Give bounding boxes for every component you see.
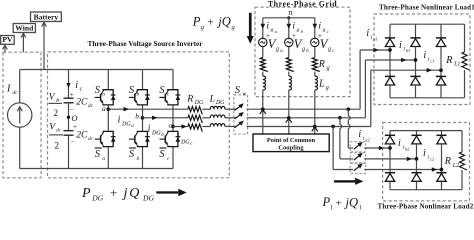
wire: load2 leg a mid — [389, 144, 391, 173]
current arrow i_gc — [313, 24, 318, 29]
capacitor 2C_dc upper — [64, 91, 94, 114]
svg-text:g: g — [326, 85, 329, 91]
label I_dc — [6, 84, 18, 97]
current arrow i_lc2 — [432, 167, 437, 171]
current arrow i_DGc — [182, 124, 188, 128]
svg-text:g: g — [302, 47, 305, 53]
svg-text:S: S — [129, 149, 135, 160]
wire: filter to S_w a — [225, 108, 236, 110]
svg-text:S: S — [129, 85, 135, 96]
svg-text:2: 2 — [54, 108, 59, 118]
wire: R-L gap c — [202, 126, 210, 128]
wire: leg c upper — [172, 70, 174, 90]
svg-text:L: L — [209, 94, 215, 105]
wire: leg a mid — [107, 105, 109, 131]
inductor L_DG phase b — [210, 115, 225, 118]
svg-text:dc: dc — [56, 129, 62, 134]
wire: cap branch lower — [68, 135, 70, 168]
wire: load2 leg c mid — [441, 144, 443, 173]
inductor L_g branch c — [315, 76, 318, 90]
wire: filter to S_w c — [225, 126, 236, 128]
resistor R_g branch a — [260, 58, 268, 72]
wire: filter to S_w b — [225, 117, 236, 119]
svg-text:i: i — [118, 115, 121, 126]
label i_DGc — [177, 133, 194, 148]
svg-text:c1: c1 — [430, 58, 434, 63]
wire: load1 right lower — [464, 70, 466, 98]
label i_DGb — [148, 124, 165, 139]
load1 bottom rail — [390, 97, 465, 99]
wire: R-L gap b — [202, 117, 210, 119]
svg-text:g: g — [323, 27, 326, 33]
current arrow i_lb2 — [407, 157, 412, 161]
label V_gb — [294, 37, 309, 54]
label S_a bar — [95, 148, 106, 162]
svg-text:DG: DG — [91, 193, 103, 202]
label i_lb2 — [398, 138, 410, 151]
svg-text:O: O — [71, 113, 77, 123]
svg-text:g: g — [327, 66, 330, 72]
current arrow i_lb1 — [401, 58, 406, 63]
wire: cap branch upper — [68, 70, 70, 99]
label V_ga plus — [266, 32, 270, 40]
wire: grid branch b upper — [288, 18, 290, 40]
wire: load1 leg c mid — [440, 47, 442, 77]
PV box — [1, 35, 15, 44]
svg-text:R: R — [318, 59, 325, 70]
diode load2 bottom a — [385, 173, 395, 182]
diode load1 top a — [385, 38, 395, 47]
wire: grid top bus — [263, 17, 315, 19]
inductor L_DG phase a — [210, 106, 225, 109]
svg-text:P: P — [322, 195, 331, 209]
wire: load2 leg b mid — [416, 144, 418, 173]
svg-text:g: g — [328, 47, 331, 53]
wire: top bus — [44, 69, 173, 71]
label V_dc/2 upper — [49, 92, 63, 118]
label P_DG + jQ_DG — [81, 185, 154, 202]
svg-text:i: i — [318, 21, 321, 32]
wire: load1 leg b mid — [415, 47, 417, 77]
Battery arrow — [42, 22, 46, 69]
label V_gc — [320, 37, 335, 54]
label S_c — [159, 85, 170, 98]
svg-text:Q: Q — [129, 186, 139, 201]
svg-text:2C: 2C — [76, 98, 88, 108]
svg-text:i: i — [398, 138, 401, 149]
svg-text:Three-Phase Nonlinear Load1: Three-Phase Nonlinear Load1 — [379, 4, 474, 12]
label S_b — [129, 85, 140, 98]
label i_ga — [266, 21, 277, 34]
wire: bus a — [247, 108, 361, 110]
svg-text:i: i — [148, 124, 151, 135]
svg-text:i: i — [358, 129, 361, 140]
diode load2 top a — [385, 135, 395, 144]
label R_L2 — [444, 156, 459, 169]
svg-text:−: − — [71, 138, 75, 146]
switch S_w phase c — [234, 121, 243, 128]
tap line a to load2 (dot) — [346, 107, 350, 111]
junction grid b / bus b — [286, 116, 292, 122]
current arrow i_ga — [261, 24, 266, 29]
svg-text:i: i — [75, 80, 78, 91]
PV arrow — [3, 45, 7, 52]
svg-text:a: a — [102, 104, 106, 113]
wire: grid branch c mid2 — [314, 72, 316, 77]
inductor L_g branch b — [289, 76, 292, 90]
svg-text:+: + — [207, 17, 214, 29]
svg-text:b: b — [137, 156, 140, 162]
junction load2 b — [415, 157, 419, 161]
svg-text:Battery: Battery — [34, 12, 59, 21]
wire: phase c to filter — [173, 126, 188, 128]
svg-text:l: l — [360, 204, 362, 211]
IGBT S_a — [95, 90, 116, 105]
svg-text:P: P — [81, 186, 91, 201]
wire: load1 leg b lower — [415, 85, 417, 98]
label V_gb plus — [292, 32, 296, 40]
diode load1 bottom b — [410, 76, 420, 85]
label S_c bar — [159, 148, 170, 162]
wire: leg b mid — [142, 105, 144, 131]
svg-text:DG: DG — [151, 130, 161, 136]
svg-text:S: S — [95, 85, 101, 96]
svg-text:i: i — [366, 28, 369, 39]
inverter enclosure (dashed box) — [48, 52, 230, 178]
svg-text:a1: a1 — [373, 36, 378, 41]
label S_a — [95, 85, 106, 98]
wire: load1 leg c upper — [440, 24, 442, 38]
svg-text:dc: dc — [13, 90, 19, 96]
label S_b bar — [129, 148, 140, 162]
svg-text:DG: DG — [121, 121, 131, 127]
svg-text:DG: DG — [142, 193, 154, 202]
svg-text:w: w — [242, 92, 246, 98]
svg-text:b: b — [137, 92, 140, 98]
P_l power arrow (right) — [334, 178, 363, 185]
inductor L_DG phase c — [210, 124, 225, 127]
svg-text:PV: PV — [2, 35, 13, 44]
wire: load1 leg a mid — [389, 47, 391, 77]
svg-text:jQ: jQ — [344, 195, 359, 209]
label V_ga — [268, 37, 283, 54]
junction: cap-bottom bus — [0, 0, 1, 1]
label S_w — [235, 85, 247, 98]
svg-text:Three-Phase Grid: Three-Phase Grid — [268, 0, 337, 9]
node b — [135, 112, 144, 121]
svg-text:dc: dc — [88, 136, 94, 142]
resistor R_DG phase a — [188, 107, 202, 115]
svg-text:+: + — [110, 185, 117, 200]
wire: load2 right upper — [461, 131, 463, 152]
label R_DG — [186, 94, 204, 107]
svg-text:i: i — [423, 50, 426, 61]
IGBT S_c — [159, 90, 180, 105]
Point of Common Coupling box — [253, 134, 329, 152]
switch S_w phase b — [234, 112, 243, 119]
svg-text:+: + — [336, 197, 342, 209]
wire: grid branch a mid1 — [262, 47, 264, 58]
current arrow i_DGb — [152, 116, 158, 120]
wire: leg b upper — [142, 70, 144, 90]
svg-text:P: P — [192, 15, 201, 29]
svg-text:a: a — [102, 156, 105, 162]
load2 title — [377, 203, 473, 211]
current arrow i_DGa — [124, 107, 130, 111]
label i_c — [75, 80, 82, 93]
wire: load2 leg c lower — [441, 181, 443, 189]
label i_DGa — [118, 115, 135, 130]
wire: load2 leg c upper — [441, 131, 443, 136]
svg-text:g: g — [276, 47, 279, 53]
svg-text:c: c — [327, 29, 329, 34]
S_w switch bracket (dashed) — [234, 95, 248, 134]
svg-text:DG: DG — [194, 100, 204, 106]
svg-text:b1: b1 — [406, 48, 411, 53]
diode load1 top b — [410, 38, 420, 47]
switch load2 row b — [354, 153, 363, 160]
svg-text:c2: c2 — [430, 156, 435, 161]
grid title — [268, 0, 337, 9]
wire: grid branch c upper — [314, 18, 316, 40]
svg-text:i: i — [177, 133, 180, 144]
diode load2 top b — [411, 135, 421, 144]
Wind box — [13, 23, 35, 32]
switch load2 row c — [354, 163, 363, 170]
wire: source top to top bus — [20, 70, 44, 103]
svg-text:R: R — [445, 55, 452, 66]
IGBT S_c-bar — [159, 131, 180, 146]
label L_g — [318, 79, 329, 92]
AC source V_gb — [285, 38, 293, 46]
resistor R_g branch c — [312, 58, 320, 72]
resistor R_DG phase b — [188, 115, 202, 123]
wire: leg c mid — [172, 105, 174, 131]
svg-text:dc: dc — [88, 103, 94, 109]
current arrow i_gb — [287, 24, 292, 29]
load2 switch bracket row b (dashed) — [350, 153, 365, 163]
svg-text:l: l — [331, 204, 333, 211]
svg-text:dc: dc — [56, 99, 62, 104]
tap line b to load2 (dot) — [338, 116, 342, 120]
wire: grid branch a upper — [262, 18, 264, 40]
wire: load1 right upper — [464, 24, 466, 52]
svg-text:2C: 2C — [76, 130, 88, 140]
junction grid a / bus a — [260, 107, 266, 113]
nonlinear load1 enclosure (dashed box) — [374, 14, 470, 105]
svg-text:R: R — [444, 156, 451, 167]
capacitor 2C_dc lower — [64, 123, 94, 146]
wire: load2 leg b upper — [416, 131, 418, 136]
wire: phase b to filter — [143, 117, 188, 119]
svg-text:a: a — [102, 92, 105, 98]
wire: grid branch b mid1 — [288, 47, 290, 58]
wire: leg c lower — [172, 147, 174, 169]
svg-text:Three-Phase Nonlinear Load2: Three-Phase Nonlinear Load2 — [377, 203, 473, 211]
grid power arrow (down) — [247, 13, 254, 44]
svg-text:b2: b2 — [405, 146, 410, 151]
diode load1 bottom a — [385, 76, 395, 85]
svg-text:DG: DG — [180, 139, 190, 145]
resistor R_DG phase c — [188, 124, 202, 132]
junction load2 c — [440, 168, 444, 172]
label V_gc plus — [318, 32, 322, 40]
junction: cap-top bus — [0, 0, 1, 1]
node c — [169, 120, 175, 129]
wire: load1 riser c — [371, 70, 441, 126]
svg-text:a2: a2 — [365, 137, 370, 142]
switch load2 row a — [354, 142, 363, 149]
svg-text:S: S — [159, 149, 165, 160]
IGBT S_b — [129, 90, 150, 105]
load2 bottom rail — [390, 189, 462, 191]
label R_L1 — [445, 55, 460, 68]
svg-text:Point of Common: Point of Common — [267, 137, 316, 144]
wire: load2 row b — [364, 158, 416, 160]
resistor R_L1 — [462, 52, 470, 70]
switch S_w phase a — [234, 103, 243, 110]
wire: between caps — [68, 103, 70, 131]
load2 switch bracket row c (dashed) — [350, 163, 365, 173]
wire: load2 right lower — [461, 170, 463, 190]
label i_lc1 — [423, 50, 434, 63]
wire: load2 leg b lower — [416, 181, 418, 189]
diode load2 bottom b — [411, 173, 421, 182]
wire: load2 feeder c — [333, 127, 353, 170]
wire: load2 leg a upper — [389, 131, 391, 136]
Wind arrow — [21, 33, 25, 52]
node O — [67, 113, 78, 123]
svg-text:g: g — [297, 27, 300, 33]
load1 top rail — [390, 23, 465, 25]
label i_gb — [292, 21, 303, 34]
svg-text:2: 2 — [55, 140, 60, 150]
svg-text:Three-Phase Voltage Source Inv: Three-Phase Voltage Source Inverter — [87, 39, 203, 48]
svg-text:n: n — [288, 7, 292, 17]
current arrow i_la1 — [373, 48, 378, 53]
junction load1 a — [388, 48, 392, 52]
wire: leg a upper — [107, 70, 109, 90]
svg-text:S: S — [159, 85, 165, 96]
wire: grid branch a lower — [262, 90, 264, 134]
load2 switch bracket row a (dashed) — [350, 142, 365, 152]
wire: R-L gap a — [202, 108, 210, 110]
wire: load1 leg b upper — [415, 24, 417, 38]
svg-text:g: g — [271, 27, 274, 33]
current source I_dc circle — [8, 103, 32, 127]
wire: bus b — [247, 117, 366, 119]
svg-text:L1: L1 — [453, 62, 460, 68]
inverter title — [87, 39, 203, 48]
svg-text:Coupling: Coupling — [278, 144, 304, 151]
resistor R_g branch b — [286, 58, 294, 72]
svg-text:S: S — [95, 149, 101, 160]
label i_gc — [318, 21, 328, 34]
current arrow i_la2 — [379, 146, 384, 150]
IGBT S_a-bar — [95, 131, 116, 146]
wire: load2 feeder b — [340, 118, 353, 159]
wire: leg b lower — [142, 147, 144, 169]
node a — [102, 104, 110, 113]
current arrow i_lc1 — [427, 68, 432, 73]
svg-text:R: R — [186, 94, 193, 105]
wire: load1 leg c lower — [440, 85, 442, 98]
svg-text:L: L — [318, 79, 325, 90]
wire: bottom bus — [69, 168, 174, 170]
wire: grid branch a mid2 — [262, 72, 264, 77]
svg-text:S: S — [235, 85, 241, 96]
wire: load1 leg a lower — [389, 85, 391, 98]
svg-text:i: i — [266, 21, 269, 32]
svg-text:DG: DG — [215, 100, 225, 106]
diode load1 top c — [436, 38, 446, 47]
label i_lb1 — [399, 40, 410, 53]
current i_c arrow — [66, 83, 70, 88]
wire: phase a to filter — [108, 108, 188, 110]
wire: load2 row c — [364, 169, 441, 171]
wire: load2 leg a lower — [389, 181, 391, 189]
P_DG power arrow (right) — [156, 189, 186, 197]
junction grid c / bus c — [312, 125, 318, 131]
diode load1 bottom c — [436, 76, 446, 85]
label P_l + jQ_l — [322, 195, 362, 211]
DC source enclosure (dashed box) — [3, 52, 41, 178]
junction load1 c — [439, 68, 443, 72]
label i_la2 — [358, 129, 370, 142]
resistor R_L2 — [460, 152, 468, 170]
IGBT S_b-bar — [129, 131, 150, 146]
svg-text:Wind: Wind — [15, 23, 34, 32]
diode load2 top c — [436, 135, 446, 144]
load1 title — [379, 4, 474, 12]
svg-text:jQ: jQ — [216, 15, 231, 29]
tap line c to load2 (dot) — [331, 125, 335, 129]
label L_DG — [209, 94, 226, 107]
AC source V_ga — [259, 38, 267, 46]
wire: grid branch c lower — [314, 90, 316, 134]
wire: load2 row a — [364, 147, 390, 149]
svg-text:i: i — [292, 21, 295, 32]
wire: grid branch b lower — [288, 90, 290, 134]
AC source V_gc — [311, 38, 319, 46]
wire: grid branch b mid2 — [288, 72, 290, 77]
svg-text:L2: L2 — [452, 163, 459, 169]
node n — [287, 7, 292, 19]
label i_lc2 — [423, 148, 435, 161]
wire: load2 feeder a — [348, 109, 353, 148]
wire: load1 riser a — [360, 50, 390, 109]
diode load2 bottom c — [436, 173, 446, 182]
svg-text:+: + — [70, 91, 74, 99]
svg-text:i: i — [399, 40, 402, 51]
label V_dc/2 lower — [49, 122, 63, 150]
svg-text:b: b — [135, 112, 139, 121]
wire: leg a lower — [107, 147, 109, 169]
junction load1 b — [414, 58, 418, 62]
svg-text:c: c — [80, 86, 83, 92]
label i_la1 — [366, 28, 377, 41]
Battery box — [31, 12, 62, 22]
grid enclosure (dashed box) — [255, 7, 350, 96]
nonlinear load2 enclosure (dashed box) — [383, 123, 470, 201]
inductor L_g branch a — [263, 76, 266, 90]
wire: bus c — [247, 126, 371, 128]
svg-text:I: I — [6, 84, 11, 95]
wire: load1 riser b — [365, 60, 415, 118]
label P_g + jQ_g — [192, 15, 236, 31]
svg-text:i: i — [423, 148, 426, 159]
load2 top rail — [390, 130, 462, 132]
